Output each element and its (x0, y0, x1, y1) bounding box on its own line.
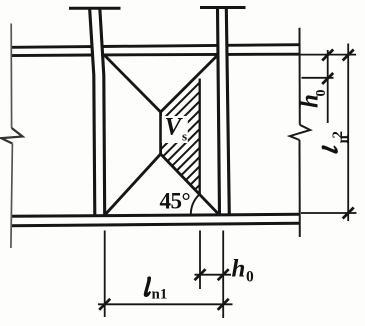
tick ln2 bottom (343, 208, 354, 219)
label ln1 bottom (144, 277, 151, 297)
svg-text:s: s (182, 129, 187, 144)
svg-text:V: V (165, 114, 184, 141)
top beam upper line (gaps at columns) (11, 45, 91, 49)
beam B1 left vertical line 2 (100, 8, 105, 216)
tick h0 right (218, 269, 229, 280)
slab right edge (with break) (290, 28, 310, 237)
svg-text:0: 0 (246, 269, 254, 286)
top beam lower line (gaps at columns), extended right as dim extension (11, 54, 91, 57)
label h0 right (rotated) (297, 90, 330, 109)
column stub cap right (200, 6, 246, 9)
svg-text:0: 0 (314, 90, 329, 97)
extension line ln1 left (104, 231, 106, 318)
yield line BL diagonal (105, 154, 161, 215)
tick h0 top (322, 50, 333, 61)
yield line TL diagonal (105, 55, 161, 112)
45 degree arc (191, 195, 199, 215)
beam B2 right vertical line 2 (226, 8, 229, 216)
tick ln1 right (218, 299, 229, 310)
yield line TR diagonal (161, 55, 218, 112)
dim line h0 bottom (195, 274, 232, 276)
svg-text:45°: 45° (160, 189, 191, 214)
label ln2 right (rotated) (322, 145, 338, 153)
beam B1 left vertical line 1 (90, 8, 95, 216)
tick h0 left (195, 269, 206, 280)
tick h0 bottom (322, 73, 333, 84)
dim line h0 top-right (327, 50, 329, 123)
tick ln2 top (343, 50, 354, 61)
bottom beam lower line (11, 223, 299, 226)
extension line common right (222, 231, 224, 319)
svg-text:h: h (232, 256, 246, 283)
svg-text:n1: n1 (152, 287, 168, 303)
extension line h0 left (critical section) (199, 231, 201, 290)
dim line ln1 bottom (98, 303, 233, 305)
extension line ln2 bottom (301, 212, 357, 214)
extension line h0 bottom (302, 77, 334, 79)
svg-text:2: 2 (330, 131, 346, 139)
beam B2 right vertical line 1 (218, 8, 220, 216)
slab left edge (with break) (1, 24, 22, 249)
white back of Vs label (162, 116, 188, 143)
tick ln1 left (99, 299, 110, 310)
yield line middle vertical (159, 112, 162, 154)
bottom beam upper line (11, 214, 299, 216)
critical section line (199, 79, 201, 196)
yield line BR diagonal (161, 154, 219, 214)
dim line ln2 right (347, 44, 349, 222)
column stub cap left (69, 7, 121, 10)
